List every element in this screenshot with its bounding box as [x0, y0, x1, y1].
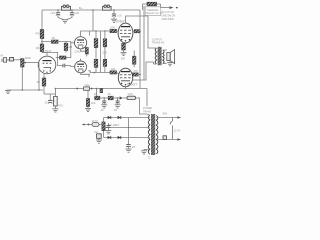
junction — [76, 88, 78, 90]
capacitor C9 — [102, 98, 106, 105]
svg-text:10K: 10K — [110, 25, 115, 29]
wire mid column — [100, 31, 102, 73]
wire — [14, 59, 21, 61]
ground — [111, 19, 117, 22]
resistor R24 — [102, 122, 105, 131]
choke L1 — [62, 5, 71, 10]
tube V1 6SJ7 — [38, 52, 56, 73]
wire grid return — [38, 63, 40, 90]
svg-text:117V: 117V — [174, 128, 180, 132]
resistor R22 — [95, 96, 100, 100]
wire stub — [88, 31, 90, 36]
wire V3 plate to OPT — [126, 16, 154, 48]
wire — [133, 30, 134, 32]
resistor R18 top right — [147, 2, 157, 6]
resistor R20 on wire — [84, 87, 90, 90]
power transformer T2 — [148, 114, 158, 155]
svg-text:500K: 500K — [25, 56, 31, 60]
wire ground bus — [7, 89, 44, 91]
wire — [142, 4, 144, 10]
tube V4 6V6 lower — [118, 68, 132, 87]
wire — [86, 54, 88, 56]
potentiometer R5 — [21, 59, 26, 67]
potentiometer R19 feedback — [54, 96, 58, 106]
wire stub — [88, 74, 90, 77]
resistor R9 grid stopper — [110, 29, 117, 32]
diode D1 — [120, 96, 123, 99]
svg-text:1K: 1K — [94, 92, 98, 96]
wire AC neutral — [156, 139, 178, 141]
tube V2b phase splitter — [75, 61, 87, 73]
svg-text:10K: 10K — [111, 67, 116, 71]
wire splitter B+ drop — [92, 10, 94, 31]
junction — [113, 9, 115, 11]
wire — [104, 47, 106, 60]
resistor R2 — [40, 44, 44, 52]
arrow — [170, 6, 174, 9]
junction — [41, 41, 43, 43]
junction — [139, 74, 141, 76]
rectifier bridge SR1 — [104, 118, 129, 145]
wire — [95, 67, 97, 72]
wire HV drop — [146, 89, 148, 107]
svg-text:1K: 1K — [107, 92, 111, 96]
svg-text:6V6GT: 6V6GT — [116, 20, 126, 24]
resistor R8 — [85, 48, 88, 55]
svg-text:LINE SW ON: LINE SW ON — [162, 15, 176, 17]
diode D3 — [118, 116, 121, 119]
wire — [87, 90, 89, 98]
wire V1 plate branch — [42, 52, 62, 65]
junction — [92, 9, 94, 11]
wire — [96, 89, 98, 97]
svg-text:6V6GT: 6V6GT — [127, 83, 137, 87]
wire — [138, 74, 140, 76]
arrow — [177, 116, 181, 119]
junction — [22, 89, 24, 91]
wire PT left mid1 — [129, 117, 150, 119]
ground — [96, 140, 102, 143]
ground — [121, 52, 127, 55]
junction — [128, 127, 130, 129]
svg-text:TO 117V AC: TO 117V AC — [162, 11, 175, 14]
wire PT left gnd — [144, 150, 150, 151]
junction — [71, 9, 73, 11]
capacitor C3 — [112, 10, 116, 19]
ground — [101, 105, 107, 108]
wire V2b plate — [80, 59, 82, 61]
junction — [38, 89, 40, 91]
svg-text:25: 25 — [45, 100, 49, 104]
capacitor C4 — [10, 57, 14, 61]
svg-text:470: 470 — [58, 103, 63, 107]
svg-text:TRANS 4Ω: TRANS 4Ω — [152, 41, 165, 44]
svg-text:.05: .05 — [51, 36, 55, 40]
svg-text:CH: CH — [94, 130, 98, 134]
ground — [167, 63, 173, 66]
resistor R7 plate load — [60, 56, 67, 59]
wire feed right — [143, 6, 145, 81]
wire grid feed splitter — [42, 42, 75, 43]
capacitor C5 coupling — [62, 64, 75, 68]
svg-text:1M: 1M — [36, 46, 41, 50]
wire — [113, 97, 119, 99]
wire upper grid line — [92, 30, 110, 32]
svg-text:12AU7: 12AU7 — [74, 50, 82, 53]
wire — [104, 31, 106, 39]
wire V2a cathode — [81, 49, 87, 51]
svg-text:SW: SW — [163, 111, 168, 115]
ground — [5, 90, 11, 93]
wire — [160, 4, 162, 8]
junction — [125, 88, 127, 90]
resistor R16 — [122, 43, 126, 50]
wire — [143, 3, 148, 5]
wire V4 cathode — [125, 87, 127, 89]
wire — [123, 50, 125, 52]
wiper arrow — [53, 100, 55, 102]
capacitor C2 — [67, 10, 75, 20]
resistor R4 — [64, 43, 68, 50]
speaker SP1 — [167, 50, 175, 64]
wire screen bus — [139, 10, 141, 89]
choke L2 — [103, 5, 112, 10]
wire — [117, 73, 119, 74]
wire PT top left — [147, 114, 150, 115]
svg-text:OA2: OA2 — [85, 84, 91, 87]
wire top B+ rail — [42, 9, 140, 11]
junction — [55, 88, 57, 90]
wire plate feed V1 — [41, 10, 43, 52]
wire — [136, 98, 147, 114]
wire — [104, 66, 106, 72]
arrow — [177, 138, 181, 141]
plug P1 — [163, 136, 166, 140]
switch S1 — [170, 118, 172, 125]
ground — [115, 105, 121, 108]
ground — [52, 109, 58, 112]
ground — [62, 20, 68, 23]
note box — [145, 7, 161, 16]
wire — [95, 31, 97, 39]
wire — [172, 126, 174, 140]
wire — [43, 86, 45, 94]
wire pot to ground bus — [21, 67, 23, 90]
wire — [133, 64, 135, 67]
junction — [88, 124, 90, 126]
ground — [141, 151, 147, 154]
output transformer T1 — [154, 47, 167, 65]
input jack J1 — [2, 58, 10, 63]
wire V3 cathode — [123, 42, 125, 43]
svg-text:250: 250 — [121, 57, 126, 60]
diode D5 — [118, 136, 121, 139]
wire V2a plate — [81, 31, 93, 37]
wire — [65, 42, 67, 44]
wire AC out — [161, 7, 171, 9]
svg-text:B+: B+ — [79, 6, 83, 10]
junction — [83, 124, 85, 126]
resistor R11 — [94, 39, 98, 48]
wire — [65, 51, 67, 53]
capacitor C11 — [106, 123, 110, 130]
svg-text:117V: 117V — [92, 119, 98, 123]
wire — [157, 3, 161, 5]
wire bias out — [82, 124, 104, 126]
wire wiper to grid — [26, 62, 38, 64]
fuse F2 — [92, 123, 99, 127]
resistor R15 screen — [134, 30, 140, 33]
svg-text:AMPLIFIER: AMPLIFIER — [162, 18, 174, 21]
junction — [91, 88, 93, 90]
resistor R21 bleed — [86, 99, 89, 107]
wire PT left bot — [129, 137, 150, 139]
wire — [117, 30, 119, 32]
wire lower grid line — [88, 71, 110, 73]
wire lower primary jog — [153, 62, 155, 64]
resistor R13 — [103, 39, 107, 47]
svg-text:+10: +10 — [117, 13, 122, 17]
wire — [133, 51, 135, 57]
junction — [96, 88, 98, 90]
svg-text:20: 20 — [132, 145, 136, 149]
svg-text:FUS: FUS — [128, 92, 133, 96]
resistor R26 — [133, 56, 136, 64]
wire — [87, 107, 89, 109]
wire — [54, 106, 56, 109]
wire V4 plate to OPT — [132, 62, 153, 80]
fuse F1 — [127, 96, 136, 99]
wire V2b cathode — [81, 73, 90, 75]
junction — [57, 9, 59, 11]
junction — [95, 30, 97, 32]
wire — [98, 138, 100, 139]
wire — [54, 89, 56, 97]
ground — [85, 108, 91, 111]
wire — [169, 61, 171, 63]
wire bias row — [94, 97, 95, 99]
wire — [123, 97, 127, 99]
svg-text:470: 470 — [133, 69, 138, 73]
wire — [100, 97, 108, 99]
wire main HV return — [55, 88, 147, 90]
ground — [105, 131, 111, 134]
resistor R1 — [40, 30, 44, 39]
svg-text:2K: 2K — [37, 80, 41, 84]
svg-text:47K: 47K — [35, 32, 40, 36]
wire AC hot — [156, 117, 178, 119]
tube V3 6V6 upper — [118, 23, 133, 43]
wire — [95, 48, 97, 60]
svg-text:+20: +20 — [50, 11, 55, 15]
resistor R17 screen — [132, 73, 138, 76]
wire feedback node — [44, 93, 56, 95]
resistor R14 — [103, 59, 107, 66]
junction — [103, 97, 105, 99]
junction — [176, 7, 178, 9]
capacitor C6 bypass — [48, 94, 52, 103]
resistor R6 cathode — [42, 78, 46, 86]
capacitor C10 — [116, 98, 120, 105]
tube V2a phase splitter — [75, 37, 87, 49]
resistor R3 — [52, 40, 59, 43]
svg-text:IN: IN — [1, 54, 4, 58]
resistor R10 grid stopper — [110, 71, 117, 74]
capacitor C7 — [100, 89, 103, 93]
capacitor C12 — [126, 144, 130, 149]
wire — [56, 57, 60, 59]
wire — [66, 43, 71, 58]
svg-text:+20: +20 — [74, 11, 79, 15]
resistor R23 — [108, 96, 113, 100]
box X1 — [97, 134, 102, 139]
ground — [126, 149, 132, 152]
svg-text:10K: 10K — [91, 101, 96, 105]
capacitor C1 — [56, 10, 64, 20]
junction — [117, 97, 119, 99]
diode D4 — [108, 136, 111, 139]
wire V1 cathode — [43, 73, 45, 78]
resistor R12 — [94, 59, 98, 67]
svg-text:TRANS: TRANS — [143, 110, 152, 113]
junction — [104, 30, 106, 32]
resistor R25 — [84, 87, 88, 90]
diode D2 — [108, 116, 111, 119]
svg-text:22K: 22K — [103, 50, 108, 54]
wire PT left mid2 — [129, 127, 150, 129]
junction — [139, 30, 141, 32]
